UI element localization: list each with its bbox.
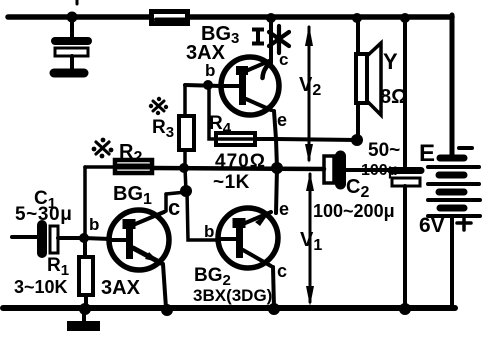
node junction top rail / speaker bbox=[352, 13, 362, 23]
wire output cap top lead bbox=[403, 18, 407, 166]
capacitor C1 solid plate bbox=[37, 225, 47, 253]
wire R2 left horizontal bbox=[85, 165, 115, 169]
node junction top rail / BG3 collector bbox=[266, 13, 276, 23]
svg-text:V2: V2 bbox=[299, 74, 321, 99]
wire battery negative lead bottom bbox=[450, 216, 454, 308]
svg-text:C2: C2 bbox=[346, 176, 369, 201]
wire speaker top lead bbox=[356, 18, 360, 54]
capacitor filter bottom plate bbox=[55, 48, 88, 56]
svg-text:c: c bbox=[168, 195, 180, 220]
wire bottom ground rail bbox=[3, 305, 455, 311]
wire filter cap to ground bbox=[70, 56, 74, 71]
resistor R1 body bbox=[79, 257, 93, 295]
transistor BG3 collector diagonal with arrow bbox=[246, 61, 269, 71]
capacitor filter top plate bbox=[55, 37, 88, 45]
svg-text:5~30μ: 5~30μ bbox=[15, 204, 72, 225]
wire BG3 emitter down bbox=[274, 111, 276, 139]
transistor BG3 circle bbox=[221, 57, 279, 115]
wire R4 left lead down bbox=[209, 86, 216, 139]
wire to speaker bottom bbox=[276, 139, 357, 140]
capacitor C2 hollow plate bbox=[324, 156, 334, 183]
svg-text:6V: 6V bbox=[419, 214, 445, 237]
battery short plate 4 bbox=[440, 205, 464, 212]
svg-text:e: e bbox=[277, 110, 287, 130]
wire BG2 base link bbox=[187, 191, 218, 240]
svg-text:50~: 50~ bbox=[368, 140, 400, 161]
wire output cap bottom lead bbox=[403, 186, 407, 308]
wire BG2 collector down bbox=[273, 267, 274, 308]
svg-text:c: c bbox=[277, 261, 287, 281]
battery positive long plate 4 bbox=[428, 214, 480, 218]
transistor BG3 base lead inside bbox=[221, 84, 239, 88]
wire BG1 collector to node bbox=[166, 192, 186, 194]
wire C1 to BG1 base node bbox=[58, 236, 84, 240]
wire BG1 base bbox=[84, 238, 110, 239]
node junction output cap / ground rail bbox=[399, 303, 411, 315]
scan tick top edge bbox=[76, 0, 79, 4]
node junction top rail / output cap bbox=[400, 13, 410, 23]
svg-text:c: c bbox=[279, 50, 288, 69]
capacitor 50-100 top plate bbox=[391, 167, 421, 174]
capacitor 50-100 bottom plate bbox=[392, 178, 420, 186]
svg-text:R4: R4 bbox=[209, 113, 232, 137]
svg-text:470Ω: 470Ω bbox=[215, 151, 266, 172]
resistor R4 body bbox=[216, 133, 255, 145]
ground symbol bar bbox=[67, 321, 100, 331]
transistor BG2 base bar bbox=[236, 218, 243, 258]
node junction C1 / R1 / R2 / base bbox=[79, 233, 89, 243]
capacitor C2 solid plate bbox=[335, 156, 346, 184]
resistor R2 body bbox=[115, 160, 152, 173]
ground symbol stem bbox=[82, 308, 86, 323]
battery plus sign bbox=[457, 216, 471, 230]
wire BG1 emitter down bbox=[163, 264, 166, 308]
wire right vertical to battery bbox=[450, 15, 455, 156]
wire top supply rail bbox=[8, 14, 452, 20]
transistor BG3 base bar bbox=[239, 66, 246, 105]
svg-text:3BX(3DG): 3BX(3DG) bbox=[193, 286, 272, 305]
transistor BG2 collector diagonal bbox=[243, 250, 271, 266]
wire C2 to output cap bbox=[346, 168, 391, 172]
transistor BG1 emitter diagonal with arrow bbox=[133, 248, 161, 263]
battery short plate 1 bbox=[440, 155, 464, 162]
node junction BG1 emitter / ground rail bbox=[161, 304, 173, 316]
svg-text:3~10K: 3~10K bbox=[14, 277, 68, 297]
wire R3 bottom lead bbox=[183, 150, 187, 168]
transistor BG1 base bar bbox=[126, 219, 133, 259]
wire emitters node vertical bbox=[276, 139, 277, 168]
transistor BG3 emitter diagonal bbox=[246, 99, 271, 110]
resistor decoupling (top rail box) bbox=[152, 12, 188, 24]
wire R3 top lead bbox=[183, 85, 187, 116]
transistor BG1 base lead inside bbox=[109, 238, 126, 242]
wire filter cap stem bbox=[70, 17, 74, 39]
node junction R1 / ground rail bbox=[79, 303, 91, 315]
resistor R3 body bbox=[179, 116, 194, 150]
svg-text:Y: Y bbox=[383, 49, 398, 74]
transistor BG2 circle bbox=[218, 208, 278, 268]
node junction mid rail / R3 bbox=[179, 163, 189, 173]
svg-text:BG1: BG1 bbox=[113, 183, 152, 208]
svg-text:3AX: 3AX bbox=[101, 277, 141, 299]
node junction BG3 base / R4 bbox=[203, 80, 213, 90]
svg-text:R2: R2 bbox=[119, 141, 142, 166]
transistor BG1 collector diagonal bbox=[133, 212, 164, 225]
svg-text:b: b bbox=[205, 61, 215, 80]
wire R1 bottom lead bbox=[84, 295, 88, 308]
star mark near R2 bbox=[92, 138, 114, 159]
svg-text:100μ: 100μ bbox=[361, 162, 397, 179]
svg-text:E: E bbox=[419, 140, 435, 167]
svg-text:~1K: ~1K bbox=[213, 172, 250, 193]
svg-text:100~200μ: 100~200μ bbox=[313, 201, 395, 221]
wire input lead bbox=[12, 235, 37, 239]
node junction speaker / output wire bbox=[351, 134, 363, 146]
node junction BG1 collector / R3 / BG2 base bbox=[180, 185, 192, 197]
battery long plate 1 bbox=[428, 165, 479, 169]
wire R4 right lead bbox=[255, 137, 276, 141]
star mark near BG3 collector (I) bbox=[269, 26, 289, 53]
wire BG3 collector to top rail bbox=[269, 18, 273, 63]
svg-text:b: b bbox=[89, 215, 99, 234]
speaker Y body rectangle bbox=[356, 54, 367, 103]
ground bar under filter cap bbox=[54, 69, 84, 78]
transistor BG2 base lead inside bbox=[218, 237, 236, 241]
wire BG1 collector up bbox=[164, 194, 168, 211]
wire BG3 base bbox=[185, 85, 221, 86]
wire BG2 emitter up bbox=[276, 168, 277, 213]
wire mid rail (R2 to C2) bbox=[152, 168, 324, 169]
battery long plate 2 bbox=[428, 182, 479, 186]
svg-text:b: b bbox=[204, 222, 214, 241]
svg-text:8Ω: 8Ω bbox=[380, 86, 407, 108]
capacitor C1 hollow plate bbox=[50, 226, 58, 253]
label I (current mark) bbox=[252, 29, 264, 44]
transistor BG2 emitter diagonal with arrow bbox=[243, 212, 271, 224]
svg-text:e: e bbox=[279, 199, 289, 219]
transistor BG1 circle bbox=[109, 210, 169, 270]
node junction BG2 collector / ground rail bbox=[268, 303, 280, 315]
battery minus sign bbox=[459, 146, 472, 150]
battery short plate 3 bbox=[439, 189, 464, 196]
battery short plate 2 bbox=[439, 172, 464, 179]
wire R1 top lead bbox=[83, 242, 87, 257]
svg-text:V1: V1 bbox=[300, 229, 322, 254]
wire R3 node vertical through mid rail bbox=[185, 168, 186, 191]
wire R2 left vertical feedback bbox=[83, 167, 87, 238]
wire speaker bottom lead bbox=[356, 103, 360, 140]
star mark near R3 bbox=[149, 97, 168, 115]
svg-text:R3: R3 bbox=[152, 117, 174, 141]
measure arrow V2 bbox=[308, 27, 311, 160]
speaker Y cone bbox=[367, 43, 381, 115]
node junction mid rail / emitters bbox=[271, 162, 283, 174]
svg-text:R1: R1 bbox=[47, 255, 69, 279]
node junction top rail / filter cap bbox=[67, 12, 78, 23]
battery long plate 3 bbox=[428, 198, 480, 202]
measure arrow V1 bbox=[309, 174, 312, 302]
